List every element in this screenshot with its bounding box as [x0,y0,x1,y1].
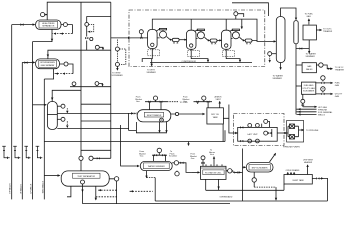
wire main vertical rail left of compressor [110,2,112,158]
cooler 1 [172,38,179,41]
vessel WATER SKIMMER [140,161,172,170]
wire skimmer drain [146,171,148,178]
gauge test sep [81,180,85,184]
wire fuel gas out [316,82,333,84]
treater oil outlet circle [175,112,178,115]
level controller int separator [64,62,68,66]
vessel stage3 suction scrubber [222,30,232,49]
LACT top row valve [240,126,243,128]
wire treater vent dashed [167,101,179,103]
svg-text:IP WELLS: IP WELLS [20,184,22,194]
instrument circle test sep 2 [89,156,93,160]
wire header wells [297,113,317,115]
svg-text:FUEL AND: FUEL AND [304,84,314,87]
valve test sep gas [97,157,100,159]
wire header for general [297,111,317,113]
wire sales feed [296,64,302,66]
wire vent station [116,40,118,63]
wire lift gas header [303,106,317,108]
drain pot stage2 dashed [188,51,200,57]
svg-text:Scrubber: Scrubber [169,156,177,158]
level controller upper stage [61,104,65,108]
valves skimmer top [154,154,157,156]
wire suction line to compressor block [111,37,131,39]
drain pot stage3 dashed [223,51,235,57]
wire skimmer feed arrow [121,125,139,166]
wire regen outlet [316,29,321,31]
svg-text:UTILITY GAS: UTILITY GAS [302,87,315,90]
stage1 suction valve [140,37,142,40]
wire cooler2 to stage3 [217,39,222,41]
svg-text:GAS SEPARAT: GAS SEPARAT [41,64,56,67]
svg-text:GAS: GAS [307,65,312,68]
utility gas valve [321,93,324,95]
fuel gas PCV [321,76,325,80]
svg-text:INTERMEDIATE: INTERMEDIATE [40,61,55,64]
wire test sep water drain [67,184,96,204]
wire regen vent [308,19,310,25]
svg-text:SCRUBBER: SCRUBBER [303,91,315,93]
wire HP separator feed [12,24,35,26]
scrubber drain circle [301,99,305,103]
wire stage2 drain [191,49,208,61]
valve scrubber drain [302,104,305,106]
skimmer gas out circle [174,161,178,165]
svg-text:Gas: Gas [136,101,140,103]
svg-text:TO PIPELINE: TO PIPELINE [306,130,319,132]
wire flotation water out [218,179,220,190]
box GAS SALES [302,63,316,73]
wire treater to tank [171,113,205,115]
instrument circle feed to rail upper [95,45,99,49]
svg-text:DRY OIL: DRY OIL [211,114,220,116]
valve glycol line [300,47,303,50]
wire compressor drain header [150,62,252,64]
valve int sep feed [25,61,28,64]
well main riser 3 LP [32,42,34,200]
column glycol contactor [276,17,285,63]
PCV on station A [85,23,89,27]
svg-text:Gas: Gas [191,158,195,160]
wire int sep LCV dashed [54,73,73,75]
station riser A [87,16,111,50]
wire top HP gas header [47,2,268,20]
box fuel and utility gas scrubber [302,82,316,94]
pipeline pump A [290,124,295,129]
svg-text:SEPARATOR: SEPARATOR [42,25,55,28]
scrubber drain circle [252,178,256,182]
glycol level controller [268,52,272,56]
wire water collection long run [44,130,225,145]
wire flotation vent [213,157,215,167]
wire LACT outlet [277,132,286,134]
fuel gas valve [321,82,324,84]
svg-text:SCRUBBER: SCRUBBER [112,75,124,77]
vessel TEST SEPARATOR [61,171,109,186]
wire gas riser B full height [80,2,82,171]
svg-text:BKP SCRUBBER: BKP SCRUBBER [252,168,268,170]
wire vert rails right mid [242,149,244,202]
wire filter bottoms rail [295,44,297,115]
svg-text:SKIMMER: SKIMMER [273,78,283,80]
svg-text:SKIM TREATER: SKIM TREATER [147,114,162,117]
svg-text:LACT UNIT: LACT UNIT [247,133,258,136]
wire stage3 discharge [231,37,243,40]
svg-text:TREATER: TREATER [335,68,345,71]
wire treater underside collector [136,122,167,133]
svg-text:PIPELINE PUMPS: PIPELINE PUMPS [283,147,300,149]
wire sump feed [283,184,285,190]
valve treater feed [134,112,137,114]
sales meter [319,63,323,67]
box glycol regenerator [303,25,316,40]
blanket gas PCV treater [153,96,157,100]
svg-text:TANK: TANK [213,116,219,119]
valve sales [328,68,331,70]
compressor cylinder 2 [197,32,204,39]
utility gas PCV [321,87,325,91]
svg-text:FLOTATION CELL: FLOTATION CELL [205,172,222,175]
valve on station A [85,37,88,39]
battery limit compressor block dash-dot [129,10,265,67]
LACT meter circles bottom [248,139,252,143]
wire flotation feed [192,171,200,173]
box SUMP TANK [284,175,312,185]
level controller lower stage [61,117,65,121]
pipeline pump B [290,135,295,140]
wire two-stage bottom outlet [57,113,136,130]
vessel stage2 suction scrubber [187,30,197,49]
blanket gas PCV tank [202,96,206,100]
svg-text:OVERBOARD: OVERBOARD [220,196,233,199]
drain pot stage1 dashed [148,50,160,56]
wire two-stage mid outlet to treater [57,112,133,114]
skimmer lower circle [175,172,179,176]
wire int sep gas header [48,50,111,59]
wire stage2 discharge [196,37,208,40]
LACT bottom row valve [240,140,243,142]
tank FLOTATION CELL [201,166,227,179]
skimmer LCV bowtie [180,162,183,164]
compressor cylinder 1 [160,31,167,38]
pressure controller discharge [234,12,238,16]
battery limit LACT dash-dot [233,114,284,146]
wire atmos vent [219,102,221,108]
vessel HIGH-PRESS SEPARATOR [36,20,61,29]
vent station circle lower [115,62,119,66]
svg-text:FOR GENERAL: FOR GENERAL [318,111,333,114]
svg-text:GAS: GAS [307,15,312,18]
wire stage1 inlet [130,37,147,39]
wire sump discharge [312,178,327,201]
valves treater blanket [148,101,151,103]
vessel stage1 suction scrubber [148,30,158,49]
wire overboard line L2 [83,203,231,205]
wire HP sep level control valve dashed [52,33,72,35]
wire scrubber flare [270,154,276,163]
svg-text:SUMP TANK: SUMP TANK [292,179,304,182]
svg-text:Gas: Gas [183,101,187,103]
svg-text:GAS: GAS [335,95,340,98]
well main riser 1 HP [11,25,13,200]
wire riser stubs to rail [81,104,111,158]
compressor cylinder 3 [232,32,239,39]
wire scrubber drain dashed [254,186,276,188]
well stub 1 [2,146,10,159]
wire int sep liquid drain [44,69,53,79]
wire header pipeline [297,108,317,110]
wire stage3 drain [226,49,240,61]
cooler 3 [245,39,252,42]
svg-text:OPEN DRAINS: OPEN DRAINS [286,169,300,172]
svg-text:WATER SKIMMER: WATER SKIMMER [148,165,165,168]
open drains arrows [288,172,294,175]
wire HP sep liquid to LP riser [33,29,53,41]
instrument circle on HP sep gas line [41,13,45,17]
wire glycol to regen [296,40,309,53]
level controller HP separator [63,23,67,27]
valve flotation outlet [234,171,237,173]
box DRY OIL TANK [207,108,224,124]
wire two-stage vessel gas top [52,90,81,101]
box LACT unit [238,127,278,141]
svg-text:TEST SEPARATOR: TEST SEPARATOR [77,175,95,178]
flotation blanket circle [201,156,205,160]
wire cooler3 to contactor [252,40,276,41]
vessel BKP SCRUBBER [246,163,273,172]
valve on HP feed [21,23,24,26]
vessel sales gas filter [294,21,298,44]
well main riser 2 IP [21,62,23,199]
battery limit pipeline pumps dashed [287,121,304,143]
treater water drain circle [160,118,164,122]
sump pump valve [316,177,319,179]
vent station circle upper [115,47,119,51]
svg-text:LP WELLS: LP WELLS [31,183,33,193]
svg-text:WELLS: WELLS [318,115,325,117]
cooler 2 [210,39,217,42]
svg-text:HEADER: HEADER [304,161,313,164]
svg-text:TREATER: TREATER [323,30,333,33]
instrument circle feed to rail lower [70,84,111,87]
vessel oil treater [137,110,171,122]
wire contactor bottoms [280,63,282,70]
wire cooler1 to stage2 [179,39,186,41]
wire scrubber feed [243,166,246,168]
wire stage1 drain [142,49,152,66]
wire utility gas out [316,93,333,95]
flotation outlet pump [228,169,232,173]
valves tank blanket [196,101,199,103]
wire bottom long line L1 [155,178,327,201]
svg-text:HP WELLS: HP WELLS [10,183,12,194]
wire vent station dashes right [119,49,125,64]
level controller test sep oil [114,177,118,181]
well main riser 4 test [43,79,45,199]
stage1 PI circle [139,30,143,34]
well stub 4 [36,146,43,159]
instrument circle test sep 1 [79,156,83,160]
wire int sep feed [22,61,34,63]
wire test sep oil dashed control [130,190,153,192]
well stub 3 [24,146,30,159]
svg-text:SALES: SALES [306,68,313,71]
svg-text:SKIMMER: SKIMMER [147,72,157,74]
vessel INTERMED-PRESS SEPARATOR [36,59,60,69]
svg-text:GAS: GAS [335,84,340,87]
wire tank to LACT [223,105,237,142]
wire test separator feed [44,175,59,177]
LACT meter circles top [248,124,252,128]
wire compressor recycle header [152,19,257,41]
wire stage1 discharge [157,37,170,40]
wire two-stage feed [33,104,47,106]
well stub 2 [13,146,20,159]
skimmer blanket circle [157,148,161,152]
vessel two-stage separator [47,102,57,130]
svg-text:TEST WELLS: TEST WELLS [42,180,44,193]
LACT sampler loop [262,121,270,127]
wire fuel scrubber feed [296,85,302,87]
svg-text:Gas: Gas [140,156,144,158]
wire treater drains [160,122,167,132]
svg-text:SKIMMER: SKIMMER [306,56,316,58]
LACT control circle [264,131,268,135]
svg-text:Vent: Vent [210,153,214,156]
wire test sep LCV dashed lower [96,190,117,197]
svg-text:VENT: VENT [216,99,222,101]
wire pumps manifold [287,126,304,137]
wire sump vent [307,165,309,175]
wire contactor overhead [281,8,296,20]
